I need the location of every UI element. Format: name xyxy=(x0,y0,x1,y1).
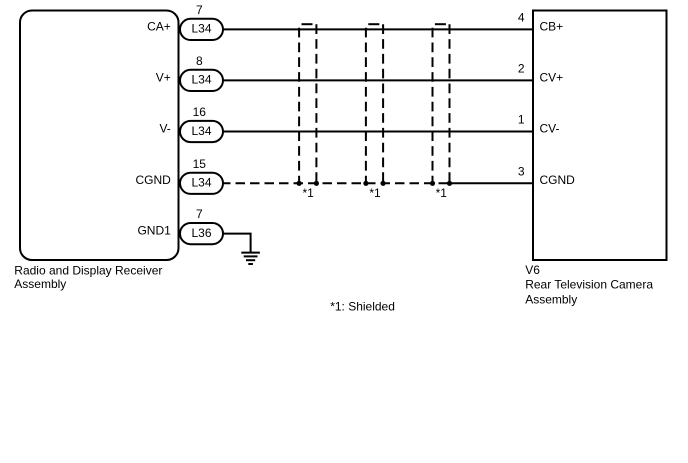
svg-text:CV+: CV+ xyxy=(540,70,564,84)
wire V+ to CV+ xyxy=(221,79,533,81)
svg-text:Rear Television Camera: Rear Television Camera xyxy=(525,278,653,292)
shield 3 left junction dot xyxy=(430,181,435,186)
svg-text:Radio and Display Receiver: Radio and Display Receiver xyxy=(14,263,162,277)
shield 2 left dashed line xyxy=(365,28,367,184)
svg-text:3: 3 xyxy=(518,164,525,178)
svg-text:V+: V+ xyxy=(156,70,171,84)
connector L34 pin 16 (V-) xyxy=(180,121,223,142)
svg-text:L36: L36 xyxy=(191,226,211,240)
svg-text:Assembly: Assembly xyxy=(14,277,66,291)
svg-text:16: 16 xyxy=(193,105,207,119)
svg-text:GND1: GND1 xyxy=(137,224,171,238)
shield 3 right dashed line xyxy=(449,24,451,183)
shield 2 left junction dot xyxy=(363,181,368,186)
shield 1 right junction dot xyxy=(314,181,319,186)
svg-text:L34: L34 xyxy=(191,124,211,138)
svg-text:Assembly: Assembly xyxy=(525,293,577,307)
svg-text:CV-: CV- xyxy=(540,121,560,135)
svg-text:CA+: CA+ xyxy=(147,19,171,33)
svg-text:*1: *1 xyxy=(369,186,381,200)
connector L34 pin 15 (CGND) xyxy=(180,173,223,194)
svg-text:CGND: CGND xyxy=(135,173,171,187)
Radio and Display Receiver Assembly box xyxy=(20,11,179,261)
Rear Television Camera Assembly box V6 xyxy=(533,11,667,261)
wire CGND shield drain (solid section to camera box) xyxy=(450,182,534,184)
wire CA+ to CB+ xyxy=(221,28,533,30)
svg-text:*1: *1 xyxy=(303,186,315,200)
svg-text:*1: *1 xyxy=(436,186,448,200)
svg-text:2: 2 xyxy=(518,61,525,75)
connector L36 pin 7 (GND1) xyxy=(180,223,223,244)
svg-text:V6: V6 xyxy=(525,263,540,277)
svg-text:1: 1 xyxy=(518,113,525,127)
shield 1 left dashed line xyxy=(298,28,300,184)
svg-text:L34: L34 xyxy=(191,73,211,87)
shield 2 right junction dot xyxy=(381,181,386,186)
wire V- to CV- xyxy=(221,131,533,133)
svg-text:4: 4 xyxy=(518,10,525,24)
connector L34 pin 8 (V+) xyxy=(180,70,223,91)
wire CGND shield drain (dashed section) xyxy=(221,182,450,184)
connector L34 pin 7 (CA+) xyxy=(180,19,223,40)
shield 2 top cap dash xyxy=(368,23,379,25)
wire GND1 to ground xyxy=(221,234,251,253)
svg-text:8: 8 xyxy=(196,54,203,68)
svg-text:CB+: CB+ xyxy=(540,19,564,33)
shield 3 right junction dot xyxy=(447,181,452,186)
shield 3 left dashed line xyxy=(432,28,434,184)
svg-text:7: 7 xyxy=(196,3,203,17)
svg-text:L34: L34 xyxy=(191,176,211,190)
shield 1 left junction dot xyxy=(297,181,302,186)
shield 2 right dashed line xyxy=(382,24,384,183)
svg-text:L34: L34 xyxy=(191,22,211,36)
svg-text:7: 7 xyxy=(196,207,203,221)
svg-text:*1: Shielded: *1: Shielded xyxy=(330,299,395,313)
ground xyxy=(241,253,260,264)
shield 3 top cap dash xyxy=(435,23,446,25)
svg-text:15: 15 xyxy=(193,157,207,171)
svg-text:V-: V- xyxy=(159,121,170,135)
shield 1 right dashed line xyxy=(315,24,317,183)
svg-text:CGND: CGND xyxy=(540,173,576,187)
shield 1 top cap dash xyxy=(302,23,313,25)
